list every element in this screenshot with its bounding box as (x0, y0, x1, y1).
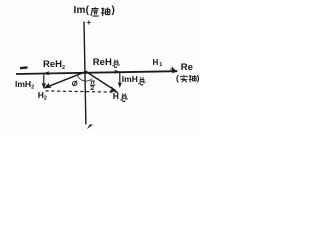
label H1 (153, 58, 163, 69)
label H2 (38, 90, 47, 102)
node ImH total down arrowhead (118, 82, 122, 88)
node Im axis bottom arrowhead (87, 124, 93, 129)
label phi angle (72, 81, 77, 87)
label Im( text (74, 5, 90, 16)
label shi glyph of real axis note (181, 75, 188, 82)
wire Im axis (84, 22, 86, 125)
label plus of Re (170, 64, 175, 74)
label plus sign top (87, 18, 92, 27)
label Re (181, 62, 193, 73)
label pi over 2 fraction (90, 81, 96, 89)
label ) of Im axis title (112, 5, 115, 16)
label ReH2 (43, 59, 65, 71)
label zong glyph of ReH total (113, 60, 120, 68)
vector H total (86, 72, 116, 91)
node H2 arrowhead (44, 83, 52, 89)
node ImH2 down arrowhead (42, 83, 47, 89)
label H of H total (113, 91, 119, 101)
wire ImH total component line (119, 72, 121, 86)
label ) of real axis note (197, 73, 200, 83)
label ImH of ImH total (122, 74, 138, 84)
vector H2 (46, 72, 87, 88)
node ReH2 left arrowhead on axis (43, 71, 50, 75)
wire dashed projection line (46, 91, 119, 92)
node angle arc at origin (77, 75, 92, 81)
label zong glyph of ImH total (139, 77, 146, 85)
label zong glyph of H total (121, 94, 128, 102)
label ReH of ReH total (93, 57, 112, 68)
node ReH total right arrowhead on axis (114, 70, 121, 74)
wire ImH2 component line (43, 75, 45, 87)
node H total arrowhead (110, 86, 118, 92)
label minus sign left (20, 66, 28, 69)
wire Re axis (16, 71, 177, 74)
label zhou glyph of real axis note (189, 75, 197, 82)
label ImH2 (15, 79, 34, 91)
node origin junction (85, 71, 88, 74)
label ( of real axis note (176, 73, 179, 83)
node Re axis arrowhead (172, 69, 179, 74)
label zhou glyph of Im axis title (101, 7, 110, 16)
label xu glyph of Im axis title (91, 7, 99, 16)
